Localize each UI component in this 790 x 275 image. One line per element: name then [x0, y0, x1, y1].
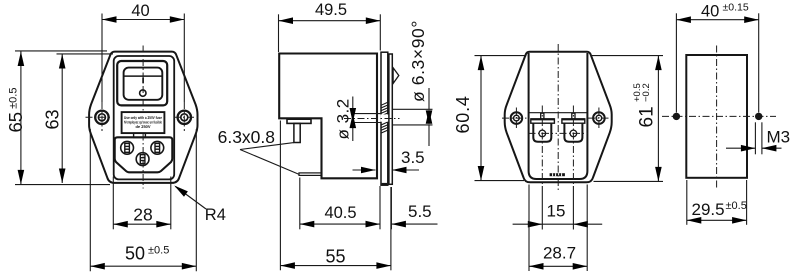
svg-text:ø 6.3×90°: ø 6.3×90° [408, 20, 428, 102]
svg-text:de 250V: de 250V [135, 124, 150, 129]
svg-text:6.3x0.8: 6.3x0.8 [218, 127, 275, 147]
svg-text:28: 28 [133, 204, 152, 224]
svg-text:65 ±0.5: 65 ±0.5 [5, 88, 26, 133]
svg-text:15: 15 [547, 201, 566, 220]
svg-text:40.5: 40.5 [324, 204, 356, 222]
svg-text:29.5: 29.5 [692, 200, 725, 219]
svg-text:±0.5: ±0.5 [726, 200, 747, 212]
svg-text:49.5: 49.5 [315, 1, 347, 19]
svg-text:5.5: 5.5 [408, 202, 432, 221]
svg-text:60.4: 60.4 [453, 95, 473, 133]
svg-text:R4: R4 [205, 206, 226, 224]
svg-text:−0.2: −0.2 [641, 83, 652, 102]
svg-text:40: 40 [701, 2, 719, 20]
svg-text:28.7: 28.7 [543, 244, 576, 263]
svg-text:M3: M3 [767, 127, 790, 146]
svg-text:±0.5: ±0.5 [148, 245, 169, 257]
svg-text:3.5: 3.5 [401, 148, 425, 167]
svg-text:ø 3.2: ø 3.2 [334, 98, 353, 139]
svg-text:40: 40 [131, 2, 149, 20]
svg-text:63: 63 [43, 109, 63, 129]
svg-text:±0.15: ±0.15 [723, 1, 749, 13]
svg-text:61: 61 [637, 106, 658, 127]
svg-text:55: 55 [325, 247, 345, 267]
svg-text:50: 50 [125, 244, 145, 264]
